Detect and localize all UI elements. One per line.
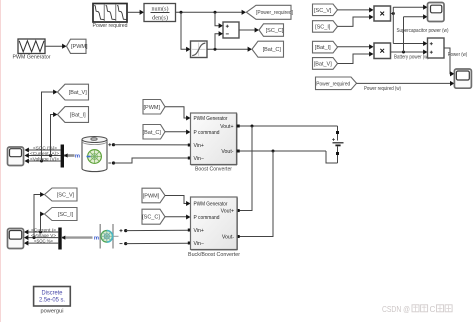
wire Vout- step to DC source (326, 151, 338, 163)
from tag [Bat_I] (313, 41, 338, 53)
wire PWM Generator to goto [PWM] (45, 44, 67, 49)
goto tag [SC_C] (259, 24, 284, 37)
wire supercap plus to Vin+ (126, 229, 191, 232)
svg-text:[Bat_V]: [Bat_V] (314, 61, 333, 67)
svg-text:m: m (94, 236, 99, 242)
svg-text:[Bat_C]: [Bat_C] (263, 47, 282, 53)
from tag [PWM] boost (143, 100, 165, 115)
scope Supercapacitor power (397, 3, 449, 35)
label Current I (31, 227, 56, 233)
svg-text:Power required (w): Power required (w) (364, 86, 401, 92)
svg-text:Buck/Boost Converter: Buck/Boost Converter (188, 252, 240, 258)
battery measurement bus m (64, 153, 80, 159)
svg-text:Vout-: Vout- (221, 149, 233, 155)
label SOC (%) (33, 145, 57, 151)
subsystem Boost Converter (191, 113, 238, 173)
svg-text:[SC_V]: [SC_V] (314, 8, 332, 14)
wire Power required to Transfer Fcn (127, 10, 144, 15)
wire tap Voltage to goto [SC_V] (34, 192, 45, 238)
svg-text:CSDN @: CSDN @ (382, 305, 410, 314)
PWM Generator source block (13, 39, 51, 61)
goto tag [Bat_C] (252, 41, 284, 57)
battery demux bus selector (61, 145, 64, 168)
from tag [SC_V] (313, 4, 338, 16)
svg-text:<Voltage V>: <Voltage V> (31, 233, 56, 239)
svg-text:<Current (A)>: <Current (A)> (30, 151, 59, 157)
svg-text:Vin−: Vin− (194, 241, 204, 247)
DC voltage source (332, 126, 343, 163)
scope supercapacitor signals (8, 229, 24, 249)
svg-text:2.5e-05 s.: 2.5e-05 s. (39, 297, 65, 303)
svg-text:Power required: Power required (93, 23, 128, 29)
sum block (subtract) (223, 22, 239, 38)
svg-text:<SOC %>: <SOC %> (34, 239, 53, 245)
wire Current I signal (24, 229, 58, 234)
label Power required (w) (364, 86, 401, 92)
from tag [SC_I] (313, 21, 338, 33)
wire branch down to Saturation (181, 12, 191, 52)
from tag [PWM] buckboost (142, 188, 165, 203)
svg-text:[SC_V]: [SC_V] (57, 193, 75, 199)
scope battery signals (8, 147, 24, 166)
wire Voltage V signal (24, 235, 58, 240)
svg-text:PWM Generator: PWM Generator (194, 116, 228, 122)
svg-text:PWM Generator: PWM Generator (194, 202, 228, 208)
wire Saturation to goto [Bat_C] (207, 47, 252, 52)
svg-text:Discrete: Discrete (42, 291, 64, 297)
wire [Bat_V] to product2 (338, 51, 374, 63)
svg-text:Vin+: Vin+ (194, 143, 204, 149)
svg-text:[SC_C]: [SC_C] (266, 28, 284, 34)
svg-text:Vout+: Vout+ (221, 209, 234, 215)
wire BuckBoost Vout- up to bus (237, 151, 273, 238)
svg-text:[Power_required]: [Power_required] (256, 10, 294, 16)
wire Transfer Fcn to goto [Power_required] (176, 10, 247, 15)
wire [Bat_I] to product2 (338, 44, 374, 49)
wire [SC_I] to product1 (338, 14, 374, 26)
product block x (battery power) (374, 43, 391, 59)
wire battery minus to Vin- (114, 157, 191, 164)
wire Power_required to scope (357, 81, 455, 86)
wire product2 to sum and scope (391, 14, 428, 54)
svg-text:[SC_I]: [SC_I] (58, 212, 74, 218)
svg-text:den(s): den(s) (152, 15, 168, 22)
label Voltage (V) (30, 156, 59, 162)
wire SOC signal sc (24, 241, 58, 246)
supercap measurement bus m (62, 236, 99, 242)
powergui block (34, 287, 71, 315)
svg-text:P command: P command (194, 130, 220, 136)
svg-text:Supercapacitor power (w): Supercapacitor power (w) (397, 28, 449, 34)
svg-text:Power (w): Power (w) (448, 52, 468, 58)
svg-text:Power_required: Power_required (316, 81, 350, 87)
wire [SC_V] to product1 (338, 7, 374, 12)
battery block (82, 137, 107, 172)
label Battery power (w) (394, 54, 429, 60)
wire product1 to scope and sum (391, 5, 428, 46)
Power required signal source block (93, 4, 128, 30)
wire battery plus to Vin+ (114, 144, 191, 147)
wire branch Saturation up to Sum input 2 (215, 31, 223, 49)
product block x (supercapacitor power) (374, 6, 391, 21)
from tag [SC_C] buckboost (142, 209, 165, 224)
transfer function block num(s)/den(s) (144, 4, 176, 22)
svg-text:[SC_C]: [SC_C] (142, 215, 160, 221)
svg-text:Boost Converter: Boost Converter (195, 167, 232, 173)
supercap plus terminal (120, 229, 128, 232)
watermark CSDN (382, 305, 452, 314)
label SOC pct (34, 239, 53, 245)
wire SOC signal (25, 147, 61, 152)
goto tag [Bat_I] (58, 107, 89, 123)
wire branch down to Sum input 1 (215, 12, 223, 28)
svg-text:<Voltage (V)>: <Voltage (V)> (30, 156, 59, 162)
wire Sum to goto [SC_C] (239, 27, 259, 32)
from tag [Bat_C] boost (143, 125, 165, 140)
battery minus terminal (108, 161, 115, 164)
svg-text:[Bat_I]: [Bat_I] (315, 45, 331, 51)
svg-text:[PWM]: [PWM] (143, 194, 160, 200)
supercapacitor block (100, 224, 118, 249)
label Voltage V (31, 233, 56, 239)
svg-text:[PWM]: [PWM] (71, 44, 88, 50)
wire supercap minus to Vin- (126, 242, 191, 245)
svg-text:[PWM]: [PWM] (144, 105, 161, 111)
svg-text:P command: P command (194, 215, 220, 221)
wire sum to scope Power (444, 48, 454, 76)
goto tag [SC_V] (45, 188, 78, 201)
goto tag [SC_I] (45, 208, 78, 221)
supercap demux bus selector (58, 228, 61, 250)
wire [Bat_C] to Boost P command (165, 129, 191, 134)
wire tap Voltage to goto [Bat_V] (42, 89, 58, 161)
goto tag [Power_required] (246, 5, 293, 19)
svg-text:<SOC (%)>: <SOC (%)> (33, 145, 57, 151)
svg-text:[Bat_V]: [Bat_V] (69, 90, 88, 96)
from tag [Bat_V] (313, 58, 338, 70)
svg-text:Vout+: Vout+ (220, 124, 233, 130)
wire Boost Vout+ bus (237, 125, 338, 128)
wire [PWM] to Boost PWM port (165, 107, 191, 121)
wire BuckBoost Vout+ up to bus (237, 126, 252, 212)
wire [SC_C] to BuckBoost P command (165, 214, 191, 219)
wire Current signal (25, 153, 61, 158)
wire Voltage signal (25, 158, 61, 163)
scope Power comparison (454, 69, 471, 88)
wire tap Current to goto [SC_I] (40, 211, 44, 232)
battery plus terminal (108, 143, 115, 146)
svg-text:Vin+: Vin+ (194, 228, 204, 234)
label Current (A) (30, 151, 59, 157)
subsystem Buck/Boost Converter (188, 197, 240, 258)
svg-text:Vin−: Vin− (194, 156, 204, 162)
sum block (add powers) (428, 38, 445, 58)
wire tap Current to goto [Bat_I] (51, 112, 58, 156)
label Power (w) (448, 52, 468, 58)
svg-text:C: C (430, 305, 436, 314)
svg-text:Vout-: Vout- (222, 235, 234, 241)
svg-text:PWM Generator: PWM Generator (13, 55, 51, 61)
svg-text:powergui: powergui (41, 308, 64, 314)
goto tag [Bat_V] (58, 84, 89, 100)
svg-text:Battery power (w): Battery power (w) (394, 54, 429, 60)
from tag [Power_required] (316, 77, 357, 90)
svg-text:[Bat_C]: [Bat_C] (143, 130, 162, 136)
goto tag [PWM] top-left (67, 39, 88, 53)
wire [PWM] to BuckBoost PWM port (165, 196, 191, 207)
svg-text:num(s): num(s) (152, 6, 169, 13)
svg-text:[Bat_I]: [Bat_I] (70, 113, 86, 119)
svg-text:[SC_I]: [SC_I] (315, 24, 331, 30)
wire Boost Vout- bus (237, 150, 326, 153)
saturation block (191, 41, 208, 58)
svg-text:<Current I>: <Current I> (31, 227, 56, 233)
supercap minus terminal (120, 242, 128, 245)
svg-text:m: m (75, 154, 80, 160)
